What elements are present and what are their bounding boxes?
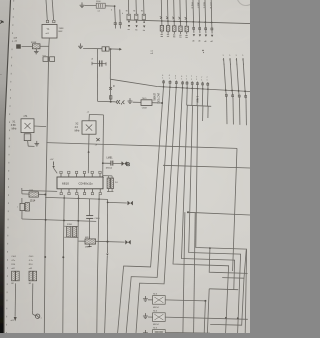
svg-text:R51 4: R51 4 (191, 3, 193, 10)
svg-text:7: 7 (207, 77, 208, 79)
svg-text:c: c (16, 207, 18, 208)
svg-text:LMB1: LMB1 (107, 158, 114, 160)
svg-text:1: 1 (230, 64, 231, 66)
svg-text:1: 1 (162, 77, 163, 79)
svg-text:(1N88): (1N88) (153, 93, 156, 101)
svg-text:CD-80x11x: CD-80x11x (79, 182, 94, 186)
svg-text:C8x8: C8x8 (142, 108, 148, 110)
svg-text:(AC7030): (AC7030) (157, 93, 160, 104)
svg-text:C77 4: C77 4 (209, 3, 211, 10)
svg-text:4: 4 (181, 76, 182, 78)
svg-text:5: 5 (242, 55, 243, 57)
svg-text:1: 1 (169, 78, 170, 80)
svg-text:08L54: 08L54 (153, 307, 159, 309)
svg-text:4: 4 (162, 75, 163, 77)
svg-text:B2: B2 (11, 283, 13, 285)
svg-text:x: x (41, 318, 42, 320)
svg-text:1: 1 (196, 79, 197, 81)
svg-text:5: 5 (236, 55, 237, 57)
svg-text:4: 4 (169, 75, 170, 77)
svg-text:1: 1 (207, 80, 208, 82)
svg-text:MHz: MHz (75, 130, 81, 133)
svg-text:1: 1 (236, 64, 237, 66)
svg-text:B2: B2 (29, 283, 31, 285)
svg-text:7: 7 (191, 76, 192, 78)
svg-text:5: 5 (229, 55, 230, 57)
svg-text:7: 7 (201, 77, 202, 79)
svg-text:1514: 1514 (30, 199, 36, 203)
svg-text:1: 1 (186, 79, 187, 81)
svg-text:1: 1 (191, 79, 192, 81)
svg-text:MHz: MHz (12, 127, 18, 130)
svg-text:4.7x: 4.7x (29, 260, 33, 262)
svg-text:u01: u01 (11, 320, 14, 322)
svg-text:6810: 6810 (62, 182, 69, 186)
svg-text:1: 1 (224, 64, 225, 66)
svg-text:7: 7 (196, 76, 197, 78)
svg-text:08L54: 08L54 (153, 324, 159, 326)
svg-text:4: 4 (175, 76, 176, 78)
svg-text:1: 1 (181, 78, 182, 80)
svg-text:5: 5 (223, 55, 224, 57)
svg-text:4.7x: 4.7x (11, 260, 15, 262)
svg-text:C64.5: C64.5 (94, 218, 100, 220)
svg-text:A14 7: A14 7 (197, 3, 200, 9)
svg-text:+5V: +5V (50, 159, 54, 161)
svg-text:k: k (122, 13, 123, 15)
svg-text:1: 1 (175, 78, 176, 80)
svg-text:1 MW: 1 MW (196, 96, 199, 103)
svg-text:1: 1 (243, 64, 244, 66)
svg-text:~: ~ (0, 72, 2, 76)
svg-text:R148: R148 (31, 42, 37, 44)
svg-text:B02 1: B02 1 (203, 3, 205, 9)
svg-text:7438: 7438 (59, 28, 65, 30)
svg-text:7: 7 (186, 76, 187, 78)
svg-text:1: 1 (201, 79, 202, 81)
svg-text:(8512): (8512) (106, 167, 113, 169)
